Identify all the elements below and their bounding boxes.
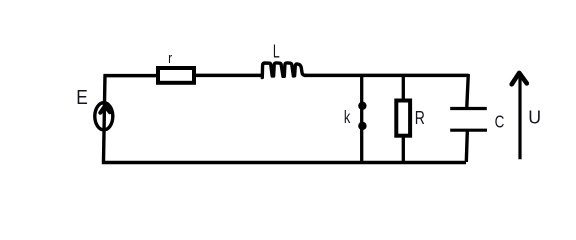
svg-text:U: U [528, 106, 541, 128]
svg-text:L: L [273, 42, 280, 62]
svg-text:C: C [495, 113, 505, 132]
svg-text:k: k [344, 108, 351, 127]
svg-text:E: E [76, 86, 88, 108]
svg-text:r: r [168, 50, 172, 67]
svg-text:R: R [415, 107, 425, 129]
